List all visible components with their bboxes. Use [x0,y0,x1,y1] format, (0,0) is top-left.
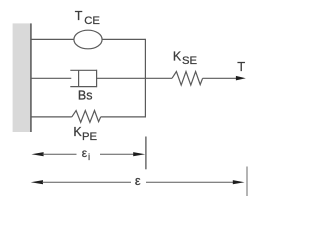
dimension epsilon_i : right line [100,153,135,155]
label K_SE [173,49,198,67]
dimension epsilon_i : end bar [145,137,147,170]
wire middle-right [97,77,172,79]
svg-text:SE: SE [182,55,198,67]
dimension epsilon : right line [146,181,235,183]
damper Bs [70,70,96,88]
dimension epsilon_i : left line [43,153,77,155]
svg-text:ε: ε [82,146,88,160]
spring K_PE [72,111,101,123]
contractile element circle T_CE [74,30,102,49]
svg-text:CE: CE [84,15,100,27]
wire middle-left [31,77,71,79]
dimension epsilon : right arrowhead [233,180,245,184]
svg-text:K: K [173,49,182,63]
label epsilon_i [82,146,90,163]
svg-text:Bs: Bs [78,88,93,102]
dimension epsilon : left arrowhead [31,180,43,184]
svg-text:i: i [88,152,90,163]
label K_PE [73,125,97,143]
dimension epsilon_i : left arrowhead [31,152,43,156]
wire top-left [31,38,74,40]
wall [13,23,31,132]
wire top-right [102,38,145,40]
svg-text:ε: ε [135,173,141,188]
junction vertical bar (node between parallel elements and K_SE) [144,39,146,118]
dimension epsilon : left line [42,181,131,183]
dimension epsilon_i : right arrowhead [133,152,145,156]
svg-text:T: T [75,9,83,23]
spring K_SE [172,72,203,86]
svg-text:T: T [237,59,245,74]
wire bottom-right [101,116,146,118]
label T_CE [75,9,101,27]
arrowhead T [236,76,246,81]
wire to tension arrow [203,77,237,79]
dimension epsilon : end bar [246,167,248,197]
svg-text:PE: PE [82,131,98,143]
wire bottom-left [31,116,72,118]
